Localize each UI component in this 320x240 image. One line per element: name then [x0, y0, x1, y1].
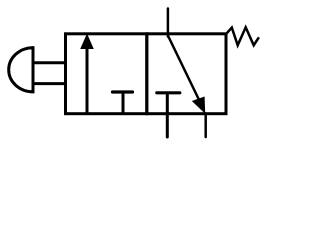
blocked port symbol crossbar in box 1 — [113, 90, 133, 93]
flow path arrow shaft in box 1 — [86, 47, 89, 114]
flow path diagonal line in box 2 — [168, 36, 202, 107]
port 1 line (bottom left, pressure) — [166, 114, 169, 138]
port 2 line (top, output) — [167, 9, 170, 37]
blocked port symbol crossbar in box 2 — [157, 91, 180, 94]
blocked port symbol stem in box 2 — [166, 93, 169, 114]
push button flat face line — [32, 46, 35, 93]
return spring zigzag — [227, 27, 259, 45]
flow path diagonal arrowhead in box 2 — [192, 97, 205, 114]
push button actuator (semicircle cap) — [9, 48, 33, 92]
valve body position box 2 (right, rest position) — [147, 34, 226, 114]
blocked port symbol stem in box 1 — [122, 92, 125, 114]
port 3 line (bottom right, exhaust) — [204, 114, 207, 138]
plunger stem lower line — [33, 82, 66, 85]
valve body position box 1 (left, actuated position) — [66, 34, 147, 114]
flow path arrowhead in box 1 — [80, 34, 94, 50]
plunger stem upper line — [33, 61, 66, 64]
